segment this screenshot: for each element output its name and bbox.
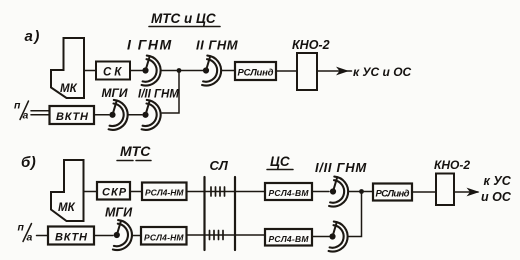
selector MGI (a) — [109, 100, 128, 130]
svg-text:КНО-2: КНО-2 — [434, 158, 470, 172]
block MK (a) — [51, 38, 84, 98]
svg-text:ВКТН: ВКТН — [55, 231, 88, 243]
svg-text:МК: МК — [58, 202, 76, 214]
svg-text:РСЛ4-ВМ: РСЛ4-ВМ — [269, 234, 310, 244]
SL label — [210, 158, 229, 173]
label b) — [21, 154, 36, 171]
wire VKTN to MGI — [94, 114, 109, 116]
wire selector to junction — [349, 191, 362, 193]
title CS underline — [267, 169, 293, 171]
svg-text:СЛ: СЛ — [210, 158, 229, 173]
selector I/II GNM (a) — [142, 100, 161, 130]
svg-text:I ГНМ: I ГНМ — [127, 37, 173, 53]
wire p/a to VKTN (b) — [37, 235, 49, 237]
svg-text:I/II ГНМ: I/II ГНМ — [138, 89, 179, 101]
svg-text:I/II ГНМ: I/II ГНМ — [315, 160, 367, 175]
selector II GNM — [202, 56, 221, 86]
svg-text:МГИ: МГИ — [102, 86, 128, 100]
node junction (b) — [359, 189, 364, 194]
wire arrow to k US / i OS — [454, 191, 478, 193]
wire junction to RSLind — [362, 191, 374, 193]
svg-text:и ОС: и ОС — [481, 190, 512, 204]
selector I/II GNM (b bottom) — [329, 222, 348, 252]
SL trunk line left — [203, 177, 205, 250]
SL trunk line right — [234, 177, 236, 250]
block RSL4-NM (bottom) — [141, 227, 187, 245]
wire RSL4-VM to selector (b bottom) — [312, 236, 329, 238]
block MK (b) — [51, 160, 84, 221]
selector I/II GNM (b top) — [329, 177, 348, 207]
svg-text:а): а) — [25, 28, 41, 45]
wire arrow to k US i OS — [317, 70, 352, 72]
wire RSL4-NM to RSL4-VM through SL — [187, 191, 266, 193]
wire junction down — [162, 71, 179, 114]
block RSLind (b) — [373, 184, 412, 201]
wire RSLind to KNO-2 — [276, 70, 297, 72]
svg-text:к УС и ОС: к УС и ОС — [353, 65, 412, 79]
wire II GNM to RSLind — [222, 70, 236, 72]
wire MK to SKR — [84, 191, 98, 193]
selector MGI (b) — [113, 220, 132, 250]
svg-text:РСЛ4-НМ: РСЛ4-НМ — [144, 232, 184, 242]
title MTS underline — [117, 160, 133, 162]
wire SKR to RSL4-NM — [130, 191, 142, 193]
block SKR — [97, 182, 130, 200]
svg-text:п: п — [18, 222, 25, 234]
svg-text:РСЛинд: РСЛинд — [376, 189, 410, 200]
svg-text:к УС: к УС — [484, 174, 512, 188]
hatch marks top SL — [211, 187, 225, 196]
svg-text:РСЛ4-ВМ: РСЛ4-ВМ — [269, 188, 310, 198]
svg-text:СКР: СКР — [102, 187, 127, 199]
svg-text:РСЛинд: РСЛинд — [238, 68, 274, 79]
block VKTN (a) — [50, 106, 95, 124]
wire RSLind to KNO-2 (b) — [412, 191, 436, 193]
wire VKTN to MGI (b) — [94, 235, 113, 237]
block KNO-2 (b) — [436, 174, 454, 206]
wire junction down to lower selector — [349, 192, 362, 237]
hatch marks bottom SL — [210, 231, 224, 240]
svg-text:МТС: МТС — [120, 143, 151, 159]
node p/a (b) — [18, 222, 33, 244]
wire MGI to I/II GNM — [128, 114, 142, 116]
block VKTN (b) — [48, 227, 94, 245]
node junction (a) — [177, 68, 182, 73]
wire MK to SK — [84, 70, 96, 72]
svg-text:РСЛ4-НМ: РСЛ4-НМ — [145, 188, 184, 198]
wire RSL4-VM to selector — [312, 191, 329, 193]
wire I GNM to II GNM with junction — [161, 70, 203, 72]
block RSLind (a) — [235, 62, 276, 80]
svg-text:ЦС: ЦС — [270, 154, 290, 169]
node p/a (a) — [14, 100, 29, 122]
label a) — [25, 28, 41, 45]
title MTS — [120, 143, 151, 159]
svg-text:МТС и ЦС: МТС и ЦС — [151, 11, 216, 26]
selector I GNM — [142, 56, 161, 86]
svg-text:СК: СК — [103, 67, 124, 79]
block SK — [96, 62, 130, 80]
svg-text:II ГНМ: II ГНМ — [196, 38, 239, 53]
block RSL4-NM (top) — [142, 183, 187, 201]
wire MGI to RSL4-NM (bottom) — [132, 235, 141, 237]
svg-text:МГИ: МГИ — [105, 206, 133, 220]
title CS — [270, 154, 290, 169]
block RSL4-VM (bottom) — [265, 229, 312, 246]
title MTS i CS — [151, 11, 216, 26]
wire double p/a to VKTN — [31, 110, 49, 112]
title underline — [149, 26, 220, 28]
block RSL4-VM (top) — [265, 183, 312, 200]
wire RSL4-NM bottom through SL to RSL4-VM — [187, 234, 266, 236]
svg-text:б): б) — [21, 154, 36, 171]
svg-text:п: п — [14, 100, 21, 112]
svg-text:КНО-2: КНО-2 — [292, 38, 330, 52]
svg-text:ВКТН: ВКТН — [56, 111, 89, 123]
block KNO-2 (a) — [297, 53, 317, 90]
svg-text:МК: МК — [60, 83, 78, 95]
wire SK to I GNM — [130, 70, 142, 72]
